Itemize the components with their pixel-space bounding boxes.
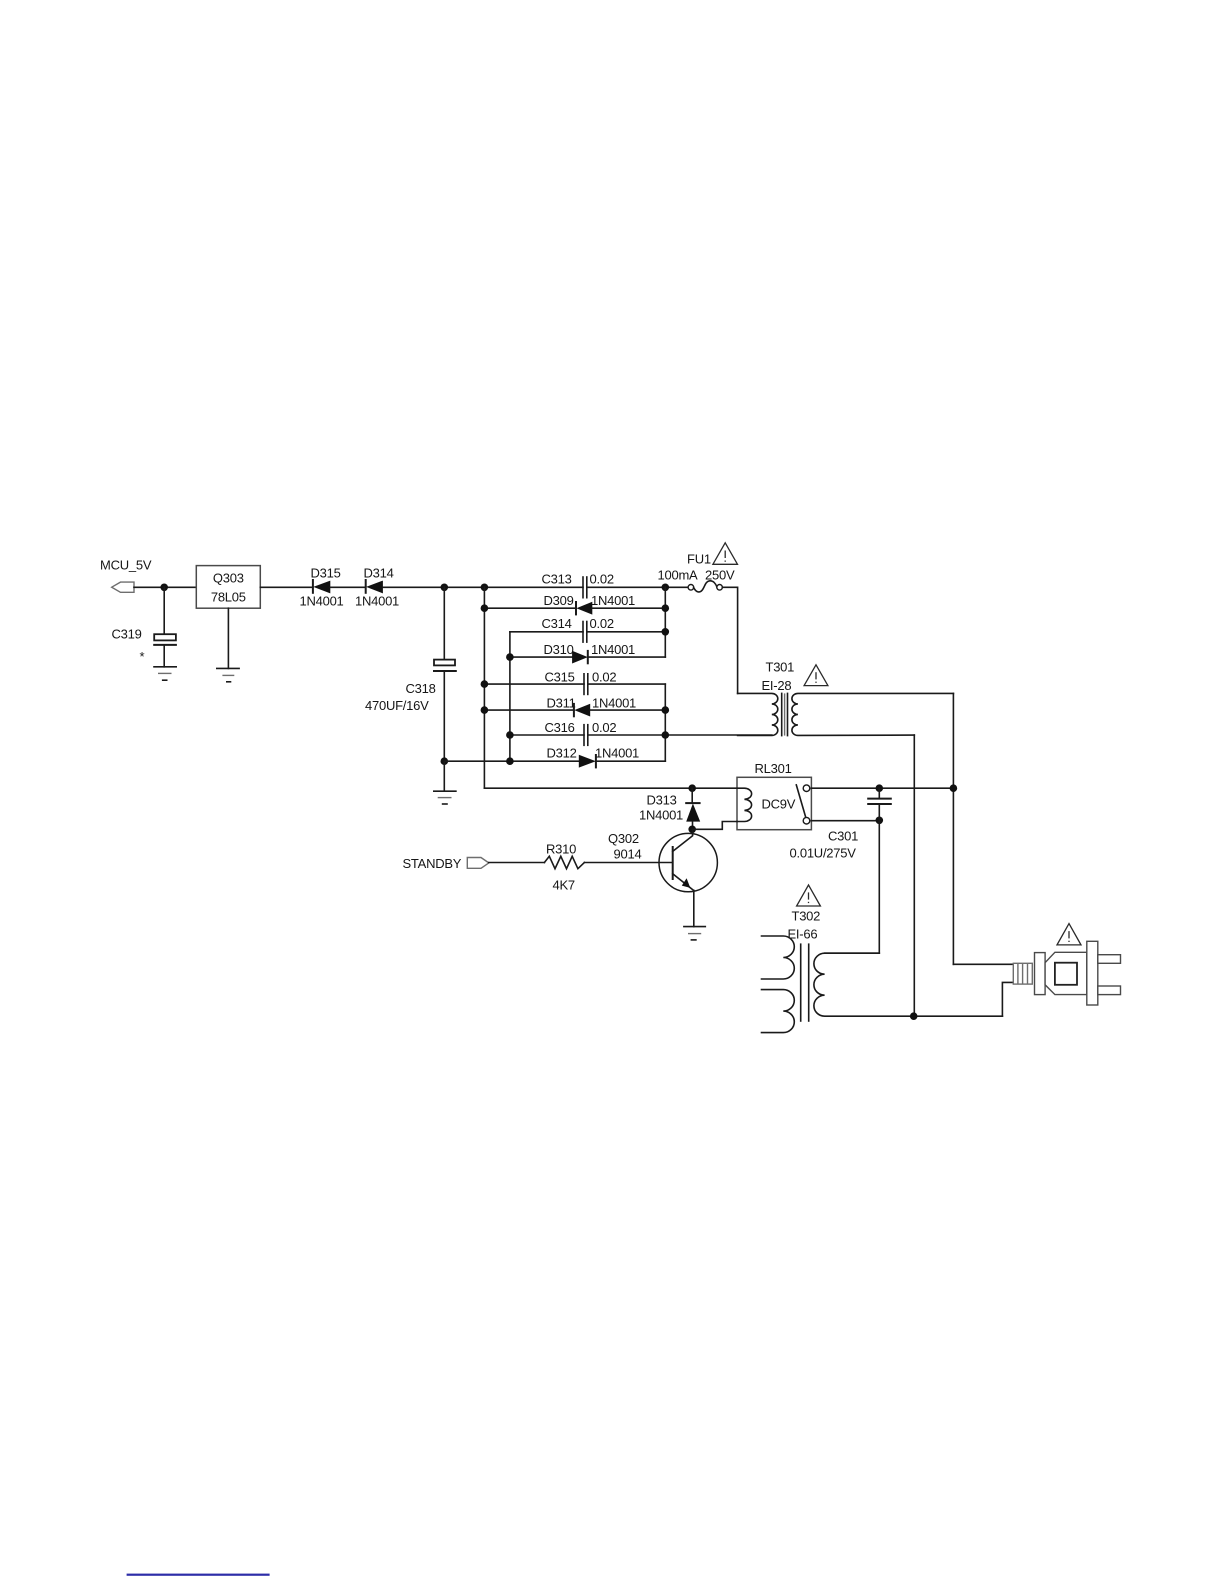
svg-text:RL301: RL301	[755, 761, 792, 776]
diode D309 body	[576, 602, 592, 615]
transistor Q302 circle	[659, 833, 717, 891]
wire D310 left	[510, 656, 572, 658]
transistor Q302 emitter arrow	[682, 878, 691, 888]
svg-text:78L05: 78L05	[211, 590, 246, 605]
wire Q303 to ground	[227, 608, 229, 668]
wire D310 right	[588, 656, 666, 658]
svg-text:1N4001: 1N4001	[300, 594, 344, 609]
transistor Q302 base bar	[672, 847, 674, 879]
svg-text:1N4001: 1N4001	[591, 593, 635, 608]
wire C314 right	[587, 631, 666, 633]
diode D309 cathode bar	[575, 602, 577, 614]
wire D313 cathode up	[691, 788, 693, 803]
wire D315 to D314	[330, 586, 365, 588]
wire C319 tap down	[163, 587, 165, 634]
wire C313 to fuse node	[587, 586, 688, 588]
svg-text:D313: D313	[647, 793, 677, 808]
svg-text:0.02: 0.02	[590, 616, 614, 631]
svg-text:C315: C315	[545, 670, 575, 685]
wire second bus vertical	[509, 632, 511, 761]
node junction D311 left	[481, 706, 489, 714]
node junction C318 branch	[441, 584, 449, 592]
node junction D312 left	[506, 757, 514, 765]
diode D312 body	[579, 755, 596, 768]
capacitor C318 top plate	[434, 660, 455, 666]
diode D314 body	[366, 581, 383, 594]
diode D315 body	[313, 581, 330, 594]
node junction D310 left	[506, 653, 514, 661]
node junction bottom rail at T301 drop	[910, 1012, 918, 1020]
node junction C314 right	[662, 628, 670, 636]
wire D314 to C313	[383, 586, 583, 588]
svg-text:1N4001: 1N4001	[591, 642, 635, 657]
resistor R310 body	[544, 856, 584, 868]
node junction D311 right	[662, 706, 670, 714]
svg-text:C318: C318	[406, 681, 436, 696]
wire relay contact top to right bus	[811, 787, 953, 789]
svg-text:DC9V: DC9V	[762, 797, 796, 812]
svg-text:D310: D310	[544, 642, 574, 657]
capacitor C314 plates	[583, 622, 587, 643]
svg-text:C316: C316	[545, 720, 575, 735]
svg-text:0.02: 0.02	[592, 720, 616, 735]
AC plug prong bottom	[1098, 986, 1121, 995]
relay RL301 switch blade	[796, 785, 806, 818]
transformer T302 primary winding	[814, 953, 1003, 1016]
relay RL301 box	[737, 777, 811, 829]
svg-text:EI-28: EI-28	[762, 678, 792, 693]
capacitor C316 plates	[584, 725, 588, 746]
node junction C315 left	[481, 680, 489, 688]
svg-text:Q303: Q303	[213, 571, 244, 586]
fuse FU1 element	[694, 581, 717, 592]
svg-text:0.02: 0.02	[592, 670, 616, 685]
port flag MCU_5V	[112, 582, 134, 592]
wire bottom rail to relay	[484, 787, 737, 789]
warning triangle at T302	[797, 885, 821, 906]
fuse FU1 left terminal	[688, 585, 694, 591]
wire C316 left	[510, 734, 584, 736]
wire C319 to ground	[163, 646, 165, 667]
svg-text:9014: 9014	[614, 847, 642, 862]
port flag STANDBY	[467, 858, 489, 869]
svg-text:C314: C314	[542, 616, 572, 631]
wire C318 branch down	[443, 587, 445, 659]
relay RL301 coil	[737, 788, 752, 821]
wire Q302 emitter to ground	[693, 890, 695, 926]
wire relay contact bottom to C301	[811, 820, 879, 822]
wire right bus upper vertical	[664, 587, 666, 657]
svg-text:1N4001: 1N4001	[355, 594, 399, 609]
wire STANDBY to R310	[489, 862, 545, 864]
wire flag to Q303	[134, 586, 196, 588]
svg-text:0.02: 0.02	[590, 572, 614, 587]
node junction collector node	[688, 826, 696, 834]
svg-text:STANDBY: STANDBY	[403, 856, 462, 871]
wire collector node to relay coil	[692, 822, 737, 830]
svg-text:*: *	[140, 649, 145, 664]
wire D312 right	[596, 760, 665, 762]
svg-text:FU1: FU1	[687, 552, 711, 567]
node junction at C319 tap	[160, 584, 168, 592]
capacitor C301 plates	[868, 799, 891, 804]
wire C315 right	[588, 683, 666, 685]
AC plug body	[1045, 952, 1087, 994]
diode D311 cathode bar	[573, 704, 575, 716]
transformer T301 secondary winding	[792, 693, 954, 735]
node junction main at right bus	[662, 584, 670, 592]
warning triangle at FU1	[713, 543, 738, 565]
capacitor C319 top plate	[154, 634, 176, 640]
svg-text:MCU_5V: MCU_5V	[100, 558, 152, 573]
transistor Q302 collector lead	[673, 829, 693, 851]
wire T301 secondary top down right side	[952, 693, 954, 964]
relay RL301 contact bottom	[803, 817, 810, 824]
diode D310 cathode bar	[587, 651, 589, 663]
node junction relay rail at D313	[688, 784, 696, 792]
ground below C319	[154, 667, 176, 680]
svg-text:1N4001: 1N4001	[595, 746, 639, 761]
footer blue rule	[127, 1574, 270, 1576]
wire D313 anode down	[692, 822, 694, 830]
wire C315 left	[484, 683, 584, 685]
diode D314 cathode bar	[365, 580, 367, 593]
wire fuse to T301 corner	[722, 587, 737, 693]
svg-text:D312: D312	[547, 746, 577, 761]
wire D312 left	[444, 760, 579, 762]
svg-text:C313: C313	[542, 572, 572, 587]
svg-text:T302: T302	[792, 909, 821, 924]
AC plug face plate	[1087, 941, 1098, 1005]
node junction C301 bottom	[876, 817, 884, 825]
svg-text:4K7: 4K7	[553, 878, 575, 893]
AC plug prong top	[1098, 955, 1121, 964]
capacitor C318 bottom plate	[434, 670, 456, 672]
wire C318 down to D312 row	[443, 672, 445, 761]
wire C301 top stub	[878, 788, 880, 798]
svg-text:D311: D311	[547, 696, 576, 711]
svg-text:D314: D314	[364, 566, 394, 581]
svg-text:470UF/16V: 470UF/16V	[365, 698, 429, 713]
AC plug collar	[1035, 953, 1046, 995]
wire D309 left	[484, 607, 576, 609]
AC plug inner square	[1055, 963, 1077, 985]
node junction D312 row at C318	[441, 757, 449, 765]
transformer T302 secondary winding upper	[762, 936, 795, 979]
svg-text:0.01U/275V: 0.01U/275V	[790, 846, 857, 861]
node junction left bus branch	[481, 584, 489, 592]
svg-text:Q302: Q302	[608, 831, 639, 846]
wire plug neutral riser	[1002, 982, 1013, 1016]
transformer T302 secondary winding lower	[762, 990, 795, 1033]
svg-text:D315: D315	[311, 566, 341, 581]
wire R310 to Q302 base	[584, 862, 672, 864]
capacitor C319 bottom plate	[154, 644, 176, 646]
node junction D309 right	[662, 604, 670, 612]
svg-text:T301: T301	[766, 660, 795, 675]
diode D311 body	[574, 704, 590, 717]
wire plug live from right bus	[953, 963, 1013, 965]
wire C314 left	[510, 631, 583, 633]
node junction C301 top	[876, 784, 884, 792]
transistor Q302 emitter lead	[673, 874, 694, 891]
regulator Q303 box	[196, 566, 260, 609]
svg-text:100mA: 100mA	[658, 568, 699, 583]
diode D313 body	[686, 804, 700, 822]
wire C318 to ground	[443, 761, 445, 791]
wire D309 right	[592, 607, 665, 609]
AC plug cable ribs	[1013, 963, 1032, 984]
transformer T301 core	[782, 693, 788, 735]
node junction right bus at relay	[950, 784, 958, 792]
wire D311 left	[484, 709, 574, 711]
ground below Q303	[217, 668, 239, 681]
fuse FU1 right terminal	[717, 585, 723, 591]
wire T301 secondary bottom down	[913, 735, 915, 1016]
wire right bus lower vertical	[664, 684, 666, 761]
capacitor C313 plates	[583, 577, 587, 598]
wire C301 down to T302	[825, 804, 880, 953]
wire Q303 to D315	[260, 586, 313, 588]
capacitor C315 plates	[584, 674, 588, 695]
warning triangle at T301	[804, 665, 828, 686]
node junction C316 left	[506, 731, 514, 739]
diode D310 body	[572, 651, 588, 664]
transformer T302 core	[801, 944, 809, 1021]
warning triangle at plug	[1057, 924, 1081, 945]
transformer T301 primary winding	[738, 693, 778, 735]
svg-text:C319: C319	[112, 627, 142, 642]
svg-text:R310: R310	[546, 842, 576, 857]
node junction C316 right	[662, 731, 670, 739]
svg-text:D309: D309	[544, 593, 574, 608]
ground below Q302	[684, 927, 705, 940]
wire C316 right to T301	[588, 734, 772, 736]
wire left bus vertical	[483, 587, 485, 788]
ground below C318	[434, 791, 456, 804]
relay RL301 contact top	[803, 785, 810, 792]
wire D311 right	[590, 709, 665, 711]
diode D312 cathode bar	[595, 755, 597, 767]
diode D313 cathode bar	[686, 802, 699, 804]
svg-text:1N4001: 1N4001	[639, 808, 683, 823]
svg-text:1N4001: 1N4001	[592, 696, 636, 711]
node junction D309 left	[481, 604, 489, 612]
diode D315 cathode bar	[312, 580, 314, 593]
svg-text:C301: C301	[828, 829, 858, 844]
